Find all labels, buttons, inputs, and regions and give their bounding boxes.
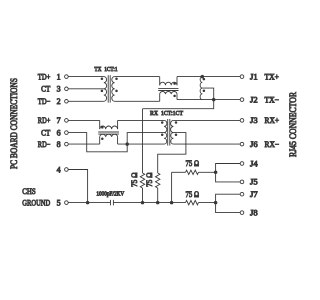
svg-text:7: 7 bbox=[57, 116, 61, 125]
svg-text:J4: J4 bbox=[250, 159, 258, 168]
resistor R1 75ohm vertical bbox=[140, 173, 144, 188]
wire secondary top to choke bbox=[115, 76, 160, 78]
right terminal J7 bbox=[240, 192, 244, 196]
svg-text:J2: J2 bbox=[250, 95, 258, 104]
svg-text:TD+: TD+ bbox=[38, 72, 51, 81]
svg-text:J1: J1 bbox=[250, 72, 258, 81]
svg-text:RJ45 CONNECTOR: RJ45 CONNECTOR bbox=[288, 92, 298, 157]
right terminal J5 bbox=[240, 180, 244, 184]
left terminal TD+ pin 1 bbox=[65, 75, 69, 79]
svg-text:J5: J5 bbox=[250, 178, 258, 187]
wire fork to J8 bbox=[216, 203, 241, 213]
svg-text:CT: CT bbox=[41, 85, 50, 94]
right terminal J2 bbox=[240, 98, 244, 102]
left terminal pin 4 bbox=[65, 168, 69, 172]
wire TD+ lead bbox=[68, 76, 104, 78]
wire fork to J7 bbox=[216, 194, 241, 202]
choke L1 core bbox=[158, 87, 178, 89]
svg-text:3: 3 bbox=[57, 85, 61, 94]
right terminal J3 bbox=[240, 119, 244, 123]
choke L3 bottom winding bbox=[99, 137, 101, 144]
wire choke to J1 bbox=[177, 76, 240, 78]
wire fork to J5 bbox=[216, 172, 241, 182]
left terminal RD+ pin 7 bbox=[65, 119, 69, 123]
svg-text:2: 2 bbox=[57, 97, 61, 106]
svg-text:4: 4 bbox=[57, 165, 61, 174]
wire ground rail left bbox=[68, 202, 110, 204]
svg-text:6: 6 bbox=[57, 128, 61, 137]
wire choke to transformer bottom bbox=[118, 143, 165, 145]
wire secondary bottom to choke bbox=[115, 100, 160, 102]
wire transformer to J3 bbox=[173, 119, 240, 121]
resistor R4 75ohm horizontal on rail bbox=[186, 200, 199, 204]
right terminal J1 bbox=[240, 75, 244, 79]
node junction J7/J8 fork bbox=[214, 201, 218, 205]
transformer T1 secondary winding bbox=[112, 77, 115, 89]
wire RD+ lead bbox=[68, 119, 100, 121]
wire autotransformer center tap to termination bbox=[143, 88, 214, 109]
svg-text:5: 5 bbox=[57, 198, 61, 207]
wire CT bypass under choke bbox=[68, 133, 164, 152]
svg-text:RX−: RX− bbox=[265, 140, 280, 149]
svg-text:75 Ω: 75 Ω bbox=[130, 172, 139, 187]
right terminal J4 bbox=[240, 162, 244, 166]
wire choke to transformer top bbox=[118, 119, 165, 121]
wire transformer to J6 bbox=[173, 143, 240, 145]
left terminal RD- pin 8 bbox=[65, 142, 69, 146]
transformer T1 core bbox=[107, 75, 109, 102]
wire pin 4 to ground rail bbox=[68, 170, 87, 203]
svg-text:TX+: TX+ bbox=[265, 72, 280, 81]
svg-text:J6: J6 bbox=[250, 140, 258, 149]
svg-text:TX 1CT:1: TX 1CT:1 bbox=[94, 67, 117, 73]
resistor R3 75ohm horizontal bbox=[186, 170, 199, 174]
svg-text:TX−: TX− bbox=[265, 95, 280, 104]
left terminal CHS GROUND pin 5 bbox=[65, 201, 69, 205]
svg-text:1000pF/2KV: 1000pF/2KV bbox=[96, 192, 124, 198]
transformer T1 TX 1CT:1 primary winding bbox=[104, 77, 107, 89]
wire rail to resistor R3 bbox=[171, 172, 173, 202]
node junction R2/rail bbox=[156, 201, 160, 205]
svg-text:RX 1CT:1CT: RX 1CT:1CT bbox=[150, 111, 183, 117]
resistor R2 75ohm vertical bbox=[156, 173, 160, 188]
left terminal CT pin 3 bbox=[65, 87, 69, 91]
svg-text:GROUND: GROUND bbox=[22, 198, 50, 207]
svg-text:75 Ω: 75 Ω bbox=[186, 159, 200, 168]
node junction tap line / J2 bbox=[212, 98, 216, 102]
svg-text:J8: J8 bbox=[250, 208, 258, 217]
choke L3 core bbox=[98, 131, 119, 133]
svg-text:1: 1 bbox=[57, 72, 61, 81]
svg-text:75 Ω: 75 Ω bbox=[186, 190, 200, 199]
svg-text:J7: J7 bbox=[250, 190, 258, 199]
node junction pin4/rail bbox=[86, 201, 90, 205]
wire choke to J2 bbox=[177, 99, 240, 101]
svg-text:CHS: CHS bbox=[22, 187, 35, 196]
wire RX secondary center tap to termination bbox=[158, 133, 186, 173]
left terminal TD- pin 2 bbox=[65, 100, 69, 104]
node junction J1/autotransformer bbox=[201, 75, 205, 79]
transformer T2 right winding bbox=[171, 120, 174, 132]
autotransformer L2 winding bbox=[200, 77, 202, 89]
svg-text:J3: J3 bbox=[250, 116, 258, 125]
svg-text:RD+: RD+ bbox=[38, 116, 51, 125]
svg-text:PC BOARD CONNECTIONS: PC BOARD CONNECTIONS bbox=[9, 78, 19, 169]
svg-text:RX+: RX+ bbox=[265, 116, 280, 125]
svg-text:8: 8 bbox=[57, 140, 61, 149]
choke L1 top winding bbox=[159, 77, 161, 86]
node junction J4/J5 fork bbox=[214, 171, 218, 175]
right terminal J6 bbox=[240, 142, 244, 146]
wire TD- lead bbox=[68, 100, 104, 102]
node junction R3 feed/rail bbox=[170, 201, 174, 205]
transformer T2 phase dots bbox=[161, 121, 164, 124]
node junction RD-/CT riser bbox=[125, 142, 129, 146]
wire fork to J4 bbox=[216, 164, 241, 173]
transformer T1 phase dots bbox=[101, 77, 104, 80]
svg-text:RD−: RD− bbox=[38, 140, 51, 149]
transformer T2 core bbox=[167, 119, 169, 146]
wire CT lead bbox=[68, 88, 104, 90]
wire RD- lead bbox=[68, 143, 100, 145]
svg-text:CT: CT bbox=[41, 128, 50, 137]
choke L3 top winding bbox=[99, 120, 101, 129]
choke L1 bottom winding bbox=[159, 94, 161, 101]
svg-text:75 Ω: 75 Ω bbox=[145, 172, 154, 187]
transformer T2 RX 1CT:1CT left winding bbox=[164, 120, 167, 132]
capacitor C1 1000pF/2KV bbox=[110, 200, 112, 206]
node junction R1/rail bbox=[141, 201, 145, 205]
wire ground rail right bbox=[113, 202, 185, 204]
left terminal CT pin 6 bbox=[65, 131, 69, 135]
right terminal J8 bbox=[240, 211, 244, 215]
svg-text:TD−: TD− bbox=[38, 97, 51, 106]
